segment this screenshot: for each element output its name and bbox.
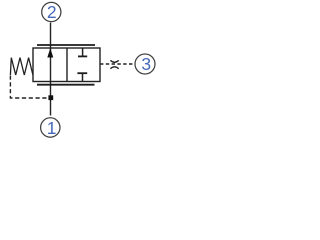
svg-text:2: 2 <box>47 2 57 22</box>
svg-text:1: 1 <box>47 118 57 138</box>
svg-text:3: 3 <box>141 54 151 74</box>
